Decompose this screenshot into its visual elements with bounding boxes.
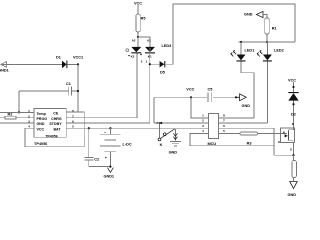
svg-text:VCC: VCC (186, 88, 194, 92)
svg-text:K: K (160, 143, 163, 147)
svg-text:LED3: LED3 (162, 44, 172, 48)
svg-text:VCC: VCC (288, 78, 296, 82)
svg-text:GND: GND (242, 104, 251, 108)
svg-text:BAT: BAT (53, 128, 61, 132)
svg-text:C2: C2 (94, 158, 99, 162)
svg-text:GND: GND (169, 151, 178, 155)
svg-text:GND: GND (244, 13, 253, 17)
svg-text:D1: D1 (56, 56, 61, 60)
svg-text:TP4056: TP4056 (34, 142, 47, 146)
svg-text:K2: K2 (131, 55, 135, 59)
svg-text:N: N (283, 130, 285, 134)
svg-text:VCC1: VCC1 (73, 56, 83, 60)
svg-text:C1: C1 (66, 82, 71, 86)
svg-text:TP4056: TP4056 (45, 134, 58, 138)
svg-text:Temp: Temp (37, 112, 47, 116)
svg-text:CE: CE (53, 112, 59, 116)
svg-text:D5: D5 (160, 71, 165, 75)
svg-text:LED2: LED2 (274, 49, 284, 53)
svg-text:GND: GND (37, 122, 45, 126)
svg-text:R1: R1 (272, 27, 277, 31)
svg-text:CHRG: CHRG (51, 117, 62, 121)
svg-text:S: S (290, 148, 292, 152)
svg-text:A1: A1 (147, 39, 151, 43)
svg-text:VCC: VCC (37, 128, 45, 132)
svg-text:L-DC: L-DC (123, 142, 132, 146)
svg-text:R2: R2 (8, 113, 13, 117)
svg-text:C5: C5 (208, 88, 213, 92)
svg-text:PROG: PROG (37, 117, 48, 121)
svg-text:D2: D2 (291, 113, 296, 117)
svg-text:GND: GND (288, 193, 297, 197)
svg-text:A2: A2 (132, 39, 136, 43)
svg-text:R3: R3 (247, 142, 252, 146)
svg-text:GND1: GND1 (0, 68, 9, 72)
svg-text:GND1: GND1 (104, 175, 115, 179)
svg-text:R5: R5 (141, 16, 146, 20)
svg-text:STDBY: STDBY (49, 122, 62, 126)
svg-text:LED1: LED1 (245, 49, 255, 53)
